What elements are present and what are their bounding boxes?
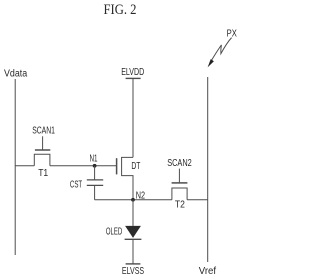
svg-text:SCAN2: SCAN2 — [167, 158, 192, 169]
capacitor CST top lead — [94, 166, 96, 180]
svg-text:DT: DT — [131, 161, 140, 172]
svg-text:Vdata: Vdata — [4, 68, 28, 79]
svg-text:FIG. 2: FIG. 2 — [104, 2, 137, 18]
transistor T1 channel bump — [34, 154, 50, 166]
wire ELVDD lead — [132, 78, 134, 157]
wire SCAN1 gate lead — [42, 136, 44, 150]
svg-text:ELVDD: ELVDD — [121, 67, 144, 78]
transistor DT gate bar — [116, 158, 118, 174]
svg-text:CST: CST — [70, 179, 82, 190]
ELVSS terminal bar — [126, 263, 141, 265]
wire Vdata bus (left vertical) — [14, 79, 16, 255]
svg-text:T1: T1 — [38, 168, 48, 179]
wire T2 to Vref bus — [187, 199, 208, 201]
svg-text:PX: PX — [227, 28, 238, 39]
svg-text:SCAN1: SCAN1 — [32, 126, 55, 137]
wire T1 to N1 to DT gate — [50, 165, 116, 167]
wire OLED anode lead — [132, 200, 134, 226]
svg-text:N2: N2 — [136, 190, 145, 201]
wire Vref bus (right vertical) — [207, 77, 209, 262]
wire row from Vdata to T1 — [15, 165, 34, 167]
capacitor CST top plate — [87, 179, 103, 181]
svg-text:ELVSS: ELVSS — [122, 266, 145, 277]
svg-text:T2: T2 — [175, 199, 185, 210]
PX pointer arrow — [208, 38, 232, 68]
diode OLED cathode bar — [125, 238, 142, 240]
transistor T2 channel bump — [172, 188, 187, 200]
diode OLED anode triangle — [125, 226, 141, 238]
wire OLED cathode lead — [132, 239, 134, 264]
wire bottom row CST to N2 to T2 — [95, 199, 172, 201]
node N2 junction dot — [131, 198, 135, 202]
svg-text:Vref: Vref — [199, 266, 217, 277]
capacitor CST bottom lead — [94, 185, 96, 199]
svg-text:OLED: OLED — [106, 226, 122, 237]
wire SCAN2 gate lead — [178, 169, 180, 183]
transistor T1 gate bar — [35, 149, 50, 151]
transistor DT channel and leads — [122, 157, 133, 199]
svg-text:N1: N1 — [90, 154, 98, 165]
capacitor CST bottom plate — [87, 184, 103, 186]
transistor T2 gate bar — [172, 182, 188, 184]
ELVDD terminal bar — [126, 77, 141, 79]
node N1 junction dot — [93, 164, 97, 168]
